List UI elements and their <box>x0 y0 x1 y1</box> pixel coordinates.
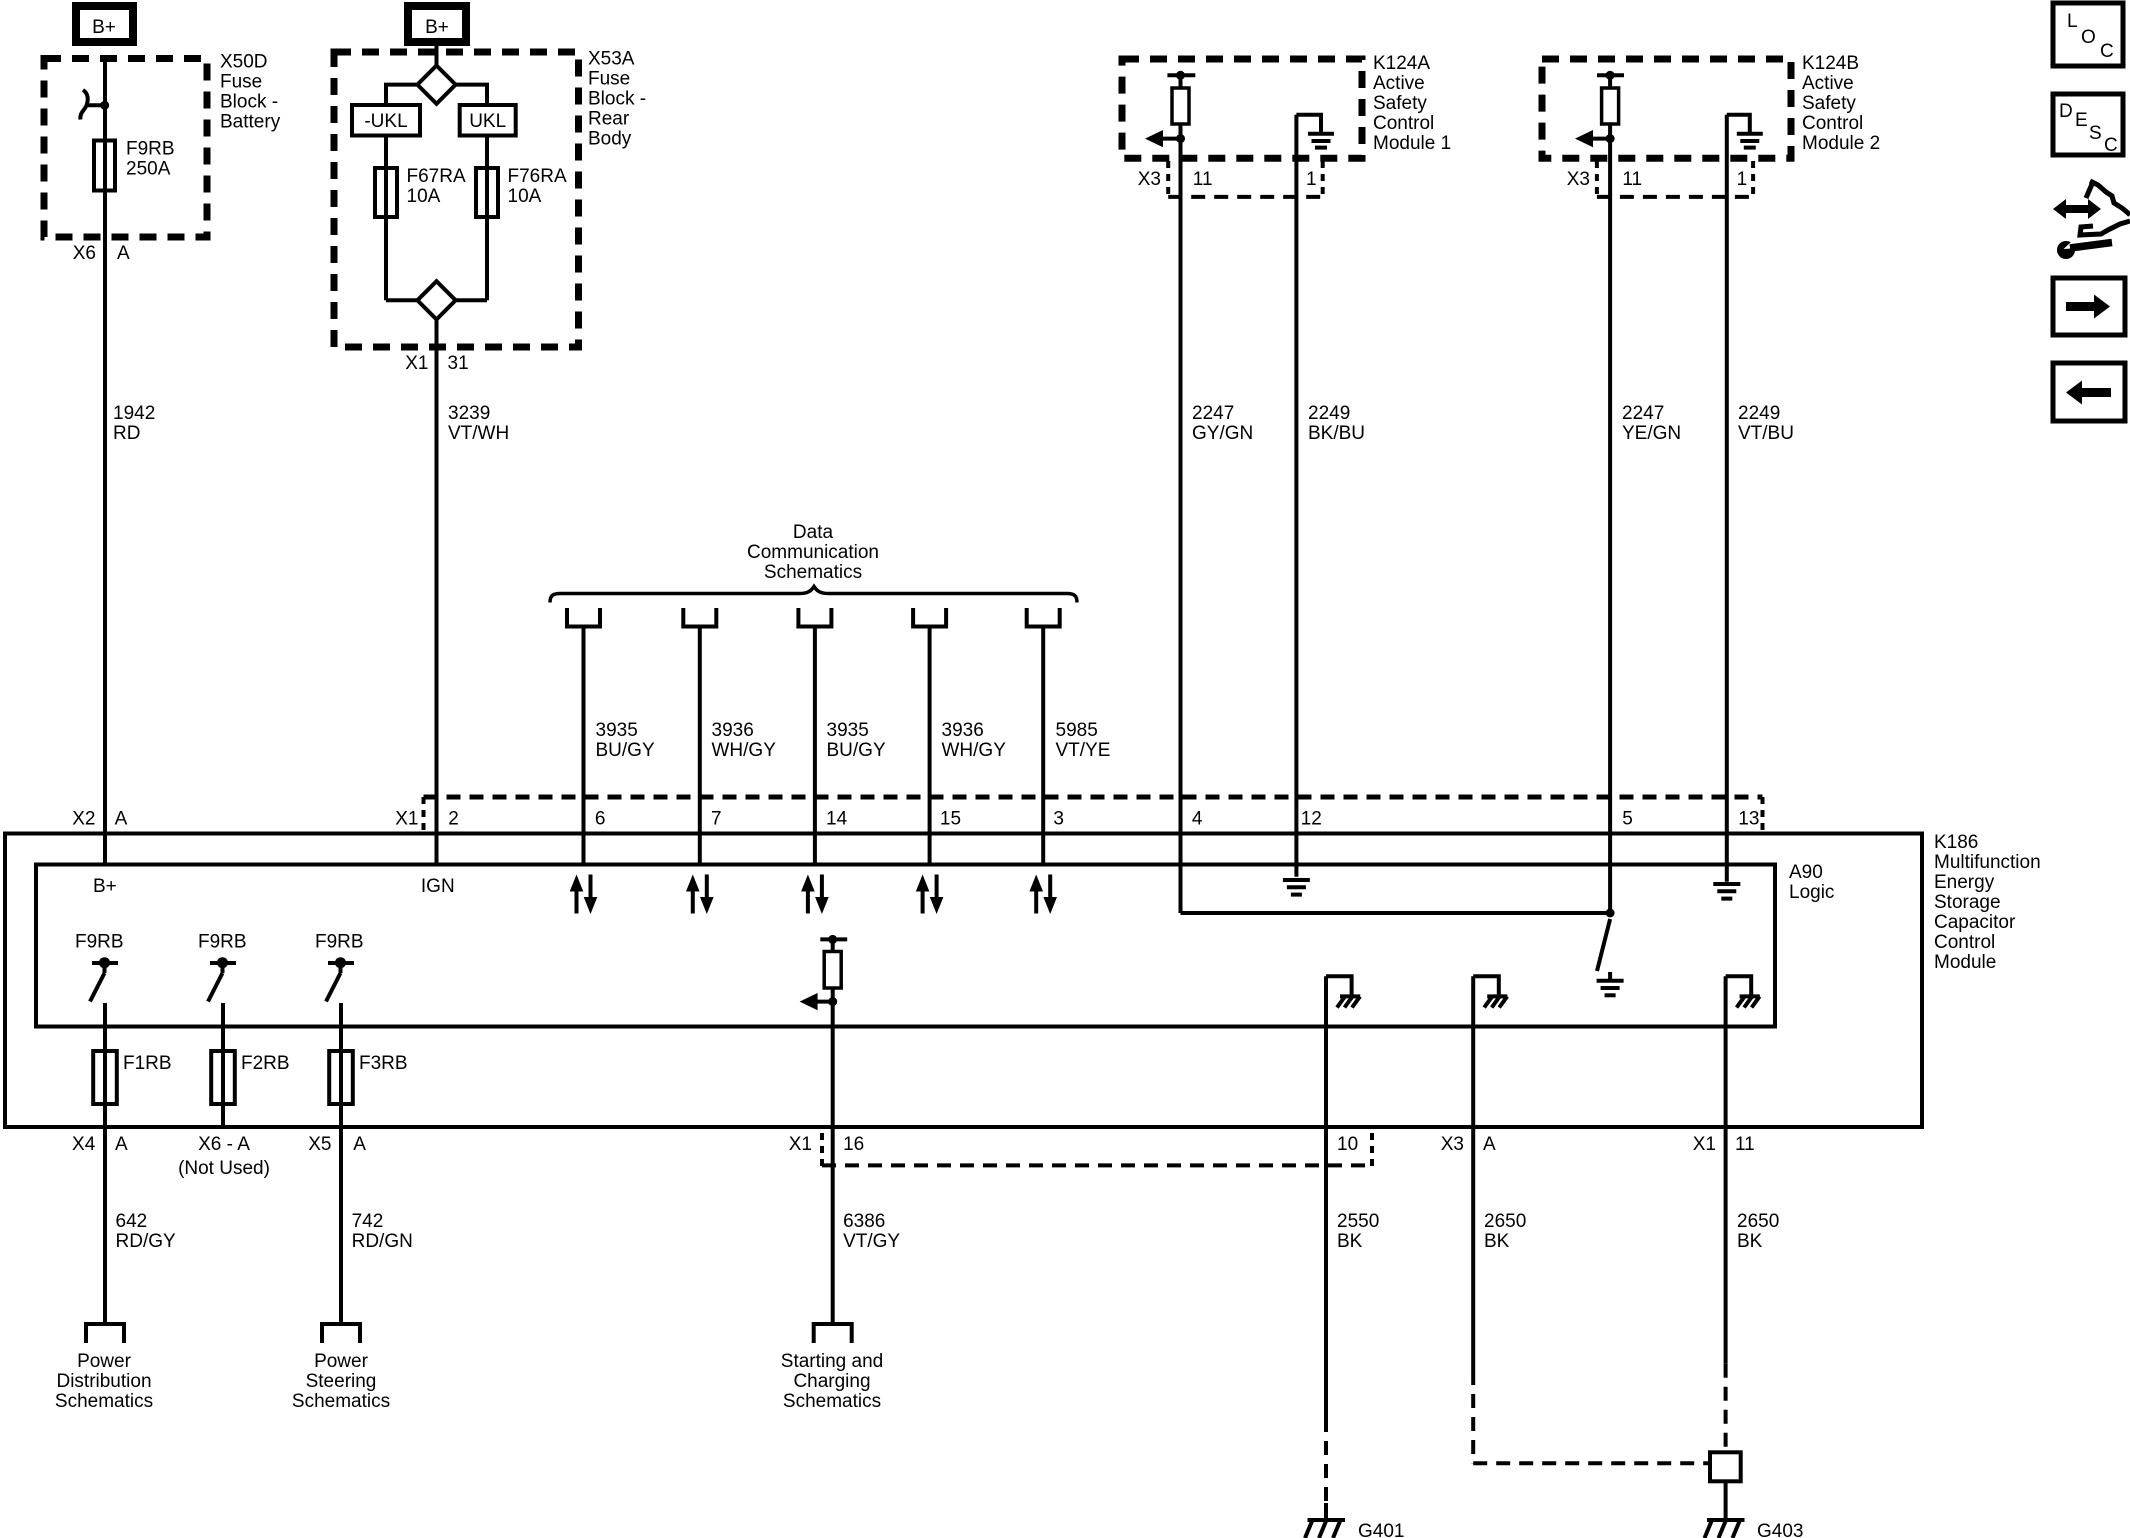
wire 3935 BU/GY (2) <box>813 627 817 867</box>
switch F9RB 1 <box>75 932 124 1002</box>
svg-text:X3: X3 <box>1138 169 1161 190</box>
relay UKL <box>460 105 516 136</box>
wire label 2247 GY/GN <box>1192 403 1253 444</box>
chassis ground at pin X1-11 <box>1726 976 1760 1007</box>
junction node <box>1606 909 1615 918</box>
forward arrow icon <box>2053 278 2125 335</box>
wire diamond to UKL <box>456 85 487 105</box>
svg-text:(Not Used): (Not Used) <box>178 1158 270 1179</box>
svg-text:BK: BK <box>1737 1231 1763 1252</box>
wire pin 10 (2550 BK) <box>1324 976 1328 1418</box>
svg-text:X5: X5 <box>308 1134 331 1155</box>
data arrows pin 3 <box>1029 875 1057 915</box>
svg-text:Schematics: Schematics <box>783 1391 881 1412</box>
svg-text:12: 12 <box>1301 809 1322 830</box>
svg-text:-UKL: -UKL <box>364 111 407 132</box>
switch F9RB 3 <box>315 932 364 1002</box>
connector X3 of K124B <box>1567 161 1753 197</box>
svg-text:X6 - A: X6 - A <box>198 1134 250 1155</box>
wire label 3239 VT/WH <box>448 403 509 444</box>
wire 5985 VT/YE <box>1041 627 1045 867</box>
data arrows pin 14 <box>801 875 829 915</box>
svg-text:F9RB: F9RB <box>126 139 175 160</box>
off-page connector pin 14 <box>798 608 831 627</box>
wire UKL branch down <box>485 136 489 301</box>
wire B+ into X53A <box>435 44 439 66</box>
ground symbol in K124A <box>1296 115 1334 148</box>
svg-text:3239: 3239 <box>448 403 490 424</box>
svg-text:X4: X4 <box>72 1134 96 1155</box>
wire K124B pin 1 ground (2249 VT/BU) <box>1725 115 1729 882</box>
svg-text:A: A <box>353 1134 366 1155</box>
svg-text:1942: 1942 <box>113 403 155 424</box>
wire 3936 WH/GY <box>698 627 702 867</box>
svg-text:15: 15 <box>940 809 961 830</box>
svg-text:5: 5 <box>1622 809 1633 830</box>
wire K124A pin 11 down to K186 pin 4 (2247 GY/GN) <box>1179 75 1183 913</box>
A90 label <box>1789 862 1834 903</box>
svg-text:A: A <box>115 809 128 830</box>
svg-text:14: 14 <box>826 809 848 830</box>
internal switch at pin 5 <box>1597 919 1610 971</box>
wire K124B pin 11 down to K186 pin 5 (2247 YE/GN) <box>1608 75 1612 913</box>
splice diamond bottom <box>417 281 455 319</box>
fuse block X53A dashed box <box>334 52 579 347</box>
splice block <box>1710 1452 1741 1481</box>
data arrows pin 6 <box>570 875 598 915</box>
svg-text:Distribution: Distribution <box>56 1371 151 1392</box>
svg-text:S: S <box>2089 123 2102 144</box>
svg-text:2247: 2247 <box>1192 403 1234 424</box>
svg-text:RD/GN: RD/GN <box>352 1231 413 1252</box>
wire 6386 VT/GY <box>843 1211 900 1252</box>
svg-text:D: D <box>2059 101 2073 122</box>
svg-text:Battery: Battery <box>220 112 281 133</box>
svg-text:Schematics: Schematics <box>55 1391 153 1412</box>
connector X1 top dashed bracket <box>424 797 1763 834</box>
signal arrow in K124B <box>1575 130 1615 147</box>
svg-text:X1: X1 <box>405 353 428 374</box>
svg-text:11: 11 <box>1735 1134 1755 1155</box>
svg-text:F1RB: F1RB <box>123 1053 172 1074</box>
off-page connector to Power Steering <box>322 1324 360 1343</box>
svg-text:Module 2: Module 2 <box>1802 133 1880 154</box>
connector X3 of K124A <box>1138 161 1323 197</box>
X50D label <box>220 52 281 133</box>
svg-text:A90: A90 <box>1789 862 1823 883</box>
svg-text:UKL: UKL <box>469 111 506 132</box>
off-page connector to Power Distribution <box>86 1324 124 1343</box>
svg-text:2650: 2650 <box>1484 1211 1526 1232</box>
svg-text:X3: X3 <box>1567 169 1590 190</box>
svg-text:2247: 2247 <box>1622 403 1664 424</box>
wire switch 3 to fuse F3RB <box>339 1003 343 1127</box>
wire switch 2 to fuse F2RB <box>221 1003 225 1127</box>
svg-text:Steering: Steering <box>306 1371 377 1392</box>
wire 3935 BU/GY <box>582 627 586 867</box>
wire 3239 VT/WH down to K186 pin X1-2 <box>435 319 439 864</box>
svg-text:F76RA: F76RA <box>508 166 567 187</box>
svg-text:2550: 2550 <box>1337 1211 1379 1232</box>
svg-text:31: 31 <box>448 353 469 374</box>
svg-text:K124B: K124B <box>1802 53 1859 74</box>
svg-text:7: 7 <box>711 809 722 830</box>
svg-text:Charging: Charging <box>793 1371 870 1392</box>
svg-text:X1: X1 <box>789 1134 812 1155</box>
wire branches into bottom diamond <box>386 298 417 302</box>
svg-text:C: C <box>2100 41 2114 62</box>
svg-text:K186: K186 <box>1934 832 1978 853</box>
svg-text:Multifunction: Multifunction <box>1934 852 2041 873</box>
svg-text:VT/GY: VT/GY <box>843 1231 900 1252</box>
svg-text:VT/YE: VT/YE <box>1056 740 1111 761</box>
off-page connector pin 3 <box>1027 608 1060 627</box>
svg-text:Communication: Communication <box>747 542 879 563</box>
svg-text:2: 2 <box>448 809 459 830</box>
switch F9RB 2 <box>198 932 247 1002</box>
svg-text:Module 1: Module 1 <box>1373 133 1451 154</box>
svg-text:Control: Control <box>1373 113 1434 134</box>
svg-text:Active: Active <box>1802 73 1854 94</box>
svg-text:A: A <box>115 1134 128 1155</box>
svg-text:Capacitor: Capacitor <box>1934 912 2016 933</box>
svg-text:Power: Power <box>77 1351 132 1372</box>
resistor in K124A <box>1167 71 1195 124</box>
svg-text:B+: B+ <box>92 17 116 38</box>
wire K124A pin 1 ground (2249 BK/BU) <box>1294 115 1298 877</box>
svg-text:BK: BK <box>1484 1231 1510 1252</box>
wire switch 1 to fuse F1RB <box>103 1003 107 1127</box>
svg-text:E: E <box>2075 110 2088 131</box>
svg-text:11: 11 <box>1193 169 1213 190</box>
svg-text:Safety: Safety <box>1802 93 1856 114</box>
svg-text:Safety: Safety <box>1373 93 1427 114</box>
svg-text:Logic: Logic <box>1789 882 1834 903</box>
fuse F1RB <box>93 1051 171 1104</box>
svg-text:Active: Active <box>1373 73 1425 94</box>
wire splice to G403 <box>1724 1481 1728 1520</box>
svg-text:1: 1 <box>1306 169 1317 190</box>
wire 642 RD/GY <box>103 1127 107 1324</box>
internal sense resistor above pin X1-16 <box>820 935 847 988</box>
svg-text:Control: Control <box>1802 113 1863 134</box>
svg-text:G403: G403 <box>1757 1521 1803 1538</box>
fuse F67RA 10A <box>375 166 466 217</box>
svg-text:Module: Module <box>1934 952 1996 973</box>
svg-text:10A: 10A <box>508 186 542 207</box>
svg-text:RD/GY: RD/GY <box>116 1231 177 1252</box>
svg-text:GY/GN: GY/GN <box>1192 423 1253 444</box>
svg-text:Storage: Storage <box>1934 892 2001 913</box>
ground G403 <box>1705 1520 1804 1538</box>
svg-text:5985: 5985 <box>1056 720 1098 741</box>
svg-text:Starting and: Starting and <box>781 1351 883 1372</box>
svg-text:642: 642 <box>116 1211 148 1232</box>
earth ground under switch <box>1597 972 1624 995</box>
svg-text:Block -: Block - <box>588 89 646 110</box>
wire 3936 WH/GY (2) <box>928 627 932 867</box>
svg-text:Fuse: Fuse <box>220 72 262 93</box>
svg-text:BU/GY: BU/GY <box>596 740 655 761</box>
svg-text:10: 10 <box>1337 1134 1358 1155</box>
top pin labels <box>72 809 1759 830</box>
module K186 outer box <box>5 834 1922 1128</box>
svg-text:F9RB: F9RB <box>75 932 124 953</box>
off-page connector to Starting and Charging <box>814 1324 852 1343</box>
wire label 2550 BK <box>1337 1211 1379 1252</box>
wire B+ to fuse block X50D (1942 RD feed) <box>103 57 107 865</box>
resistor in K124B <box>1597 71 1624 124</box>
svg-text:3: 3 <box>1053 809 1064 830</box>
svg-text:B+: B+ <box>93 876 117 897</box>
K124A label <box>1373 53 1451 154</box>
svg-text:2249: 2249 <box>1308 403 1350 424</box>
bottom pin labels <box>72 1134 1755 1179</box>
svg-text:B+: B+ <box>425 17 449 38</box>
signal arrow in K124A <box>1145 130 1185 147</box>
svg-text:YE/GN: YE/GN <box>1622 423 1681 444</box>
svg-text:VT/BU: VT/BU <box>1738 423 1794 444</box>
svg-text:Control: Control <box>1934 932 1995 953</box>
svg-text:10A: 10A <box>407 186 441 207</box>
svg-text:RD: RD <box>113 423 140 444</box>
K124B label <box>1802 53 1880 154</box>
svg-text:Schematics: Schematics <box>764 562 862 583</box>
svg-text:Block -: Block - <box>220 92 278 113</box>
svg-text:6: 6 <box>595 809 606 830</box>
svg-text:F9RB: F9RB <box>315 932 364 953</box>
fuse F76RA 10A <box>476 166 567 217</box>
svg-text:X53A: X53A <box>588 49 635 70</box>
svg-text:BK/BU: BK/BU <box>1308 423 1365 444</box>
DESC icon <box>2053 94 2123 156</box>
svg-text:F67RA: F67RA <box>407 166 466 187</box>
wire label 2249 BK/BU <box>1308 403 1365 444</box>
svg-text:250A: 250A <box>126 159 171 180</box>
chassis ground at pin 10 <box>1326 976 1360 1007</box>
vehicle data icon <box>2053 181 2130 259</box>
svg-text:6386: 6386 <box>843 1211 885 1232</box>
B+ terminal 1 <box>76 6 133 42</box>
signal arrow at pin X1-16 <box>800 993 838 1010</box>
svg-text:1: 1 <box>1737 169 1748 190</box>
module K124B dashed box <box>1542 59 1791 158</box>
svg-text:O: O <box>2081 27 2096 48</box>
svg-text:F3RB: F3RB <box>359 1053 408 1074</box>
wire label 2247 YE/GN <box>1622 403 1681 444</box>
fuse F2RB <box>211 1051 289 1104</box>
dashed wire to G401 <box>1324 1418 1328 1503</box>
pin X1 31 <box>405 353 468 374</box>
svg-text:BU/GY: BU/GY <box>827 740 886 761</box>
svg-text:16: 16 <box>843 1134 864 1155</box>
svg-text:X6: X6 <box>73 243 96 264</box>
svg-text:13: 13 <box>1738 809 1759 830</box>
ground symbol in K124B <box>1727 115 1763 148</box>
fuse F3RB <box>329 1051 407 1104</box>
K186 label <box>1934 832 2041 973</box>
svg-text:VT/WH: VT/WH <box>448 423 509 444</box>
wire label 1942 RD <box>113 403 155 444</box>
X53A label <box>588 49 646 150</box>
off-page connector pin 7 <box>683 608 716 627</box>
LOC icon <box>2053 3 2123 66</box>
wire pin X3-A (2650 BK) <box>1471 976 1475 1371</box>
svg-text:WH/GY: WH/GY <box>942 740 1007 761</box>
svg-text:X3: X3 <box>1441 1134 1464 1155</box>
chassis ground at pin X3-A <box>1473 976 1507 1007</box>
wire resistor down to pin X1-16 <box>831 987 835 1324</box>
A90 logic inner box <box>36 865 1775 1027</box>
svg-text:K124A: K124A <box>1373 53 1430 74</box>
wire -UKL branch down <box>384 136 388 301</box>
wire diamond to -UKL <box>386 85 417 105</box>
wire pin X1-11 (2650 BK) <box>1724 976 1728 1364</box>
svg-text:3936: 3936 <box>712 720 754 741</box>
svg-text:BK: BK <box>1337 1231 1363 1252</box>
svg-text:A: A <box>1483 1134 1496 1155</box>
wire label 2650 BK (X3-A) <box>1484 1211 1526 1252</box>
svg-text:742: 742 <box>352 1211 384 1232</box>
ground G401 <box>1305 1503 1404 1538</box>
svg-text:3935: 3935 <box>827 720 869 741</box>
battery clamp tap symbol <box>80 90 109 120</box>
B+ terminal 2 <box>408 6 466 42</box>
earth ground at pin 13 <box>1713 884 1740 899</box>
svg-text:C: C <box>2104 135 2118 156</box>
svg-text:F2RB: F2RB <box>241 1053 290 1074</box>
fuse block X50D dashed box <box>44 59 207 238</box>
off-page connector pin 15 <box>913 608 946 627</box>
svg-text:X1: X1 <box>1693 1134 1716 1155</box>
svg-text:A: A <box>117 243 130 264</box>
data communication heading <box>747 522 879 583</box>
svg-text:Energy: Energy <box>1934 872 1995 893</box>
data arrows pin 7 <box>686 875 714 915</box>
wire label 2249 VT/BU <box>1738 403 1794 444</box>
svg-text:G401: G401 <box>1358 1521 1404 1538</box>
off-page connector pin 6 <box>567 608 600 627</box>
svg-text:WH/GY: WH/GY <box>712 740 777 761</box>
svg-text:2249: 2249 <box>1738 403 1780 424</box>
wire label 2650 BK (X1-11) <box>1737 1211 1779 1252</box>
dashed wire X3-A down and over to splice <box>1471 1371 1475 1463</box>
svg-text:F9RB: F9RB <box>198 932 247 953</box>
svg-text:Schematics: Schematics <box>292 1391 390 1412</box>
svg-text:Fuse: Fuse <box>588 69 630 90</box>
earth ground at pin 12 <box>1283 880 1310 895</box>
svg-text:Power: Power <box>314 1351 369 1372</box>
data arrows pin 15 <box>916 875 944 915</box>
svg-text:2650: 2650 <box>1737 1211 1779 1232</box>
svg-text:4: 4 <box>1192 809 1203 830</box>
splice diamond top <box>417 66 455 104</box>
svg-text:IGN: IGN <box>421 876 455 897</box>
wire 742 RD/GN <box>339 1127 343 1324</box>
relay -UKL <box>352 105 420 136</box>
fuse F9RB 250A <box>94 139 175 191</box>
pin X6 A <box>73 243 130 264</box>
svg-text:X2: X2 <box>72 809 95 830</box>
svg-text:L: L <box>2067 11 2078 32</box>
svg-text:X1: X1 <box>395 809 418 830</box>
brace <box>550 587 1077 603</box>
svg-text:Body: Body <box>588 129 632 150</box>
dashed wire X1-11 down to splice <box>1724 1364 1728 1453</box>
svg-text:X50D: X50D <box>220 52 268 73</box>
svg-text:Data: Data <box>793 522 834 543</box>
svg-text:Rear: Rear <box>588 109 630 130</box>
connector X1 bottom dashed bracket <box>822 1133 1372 1167</box>
svg-text:3936: 3936 <box>942 720 984 741</box>
module K124A dashed box <box>1122 59 1362 158</box>
wire pin 4 to switch junction <box>1181 911 1611 915</box>
svg-text:3935: 3935 <box>596 720 638 741</box>
svg-text:11: 11 <box>1622 169 1642 190</box>
back arrow icon <box>2053 363 2125 421</box>
